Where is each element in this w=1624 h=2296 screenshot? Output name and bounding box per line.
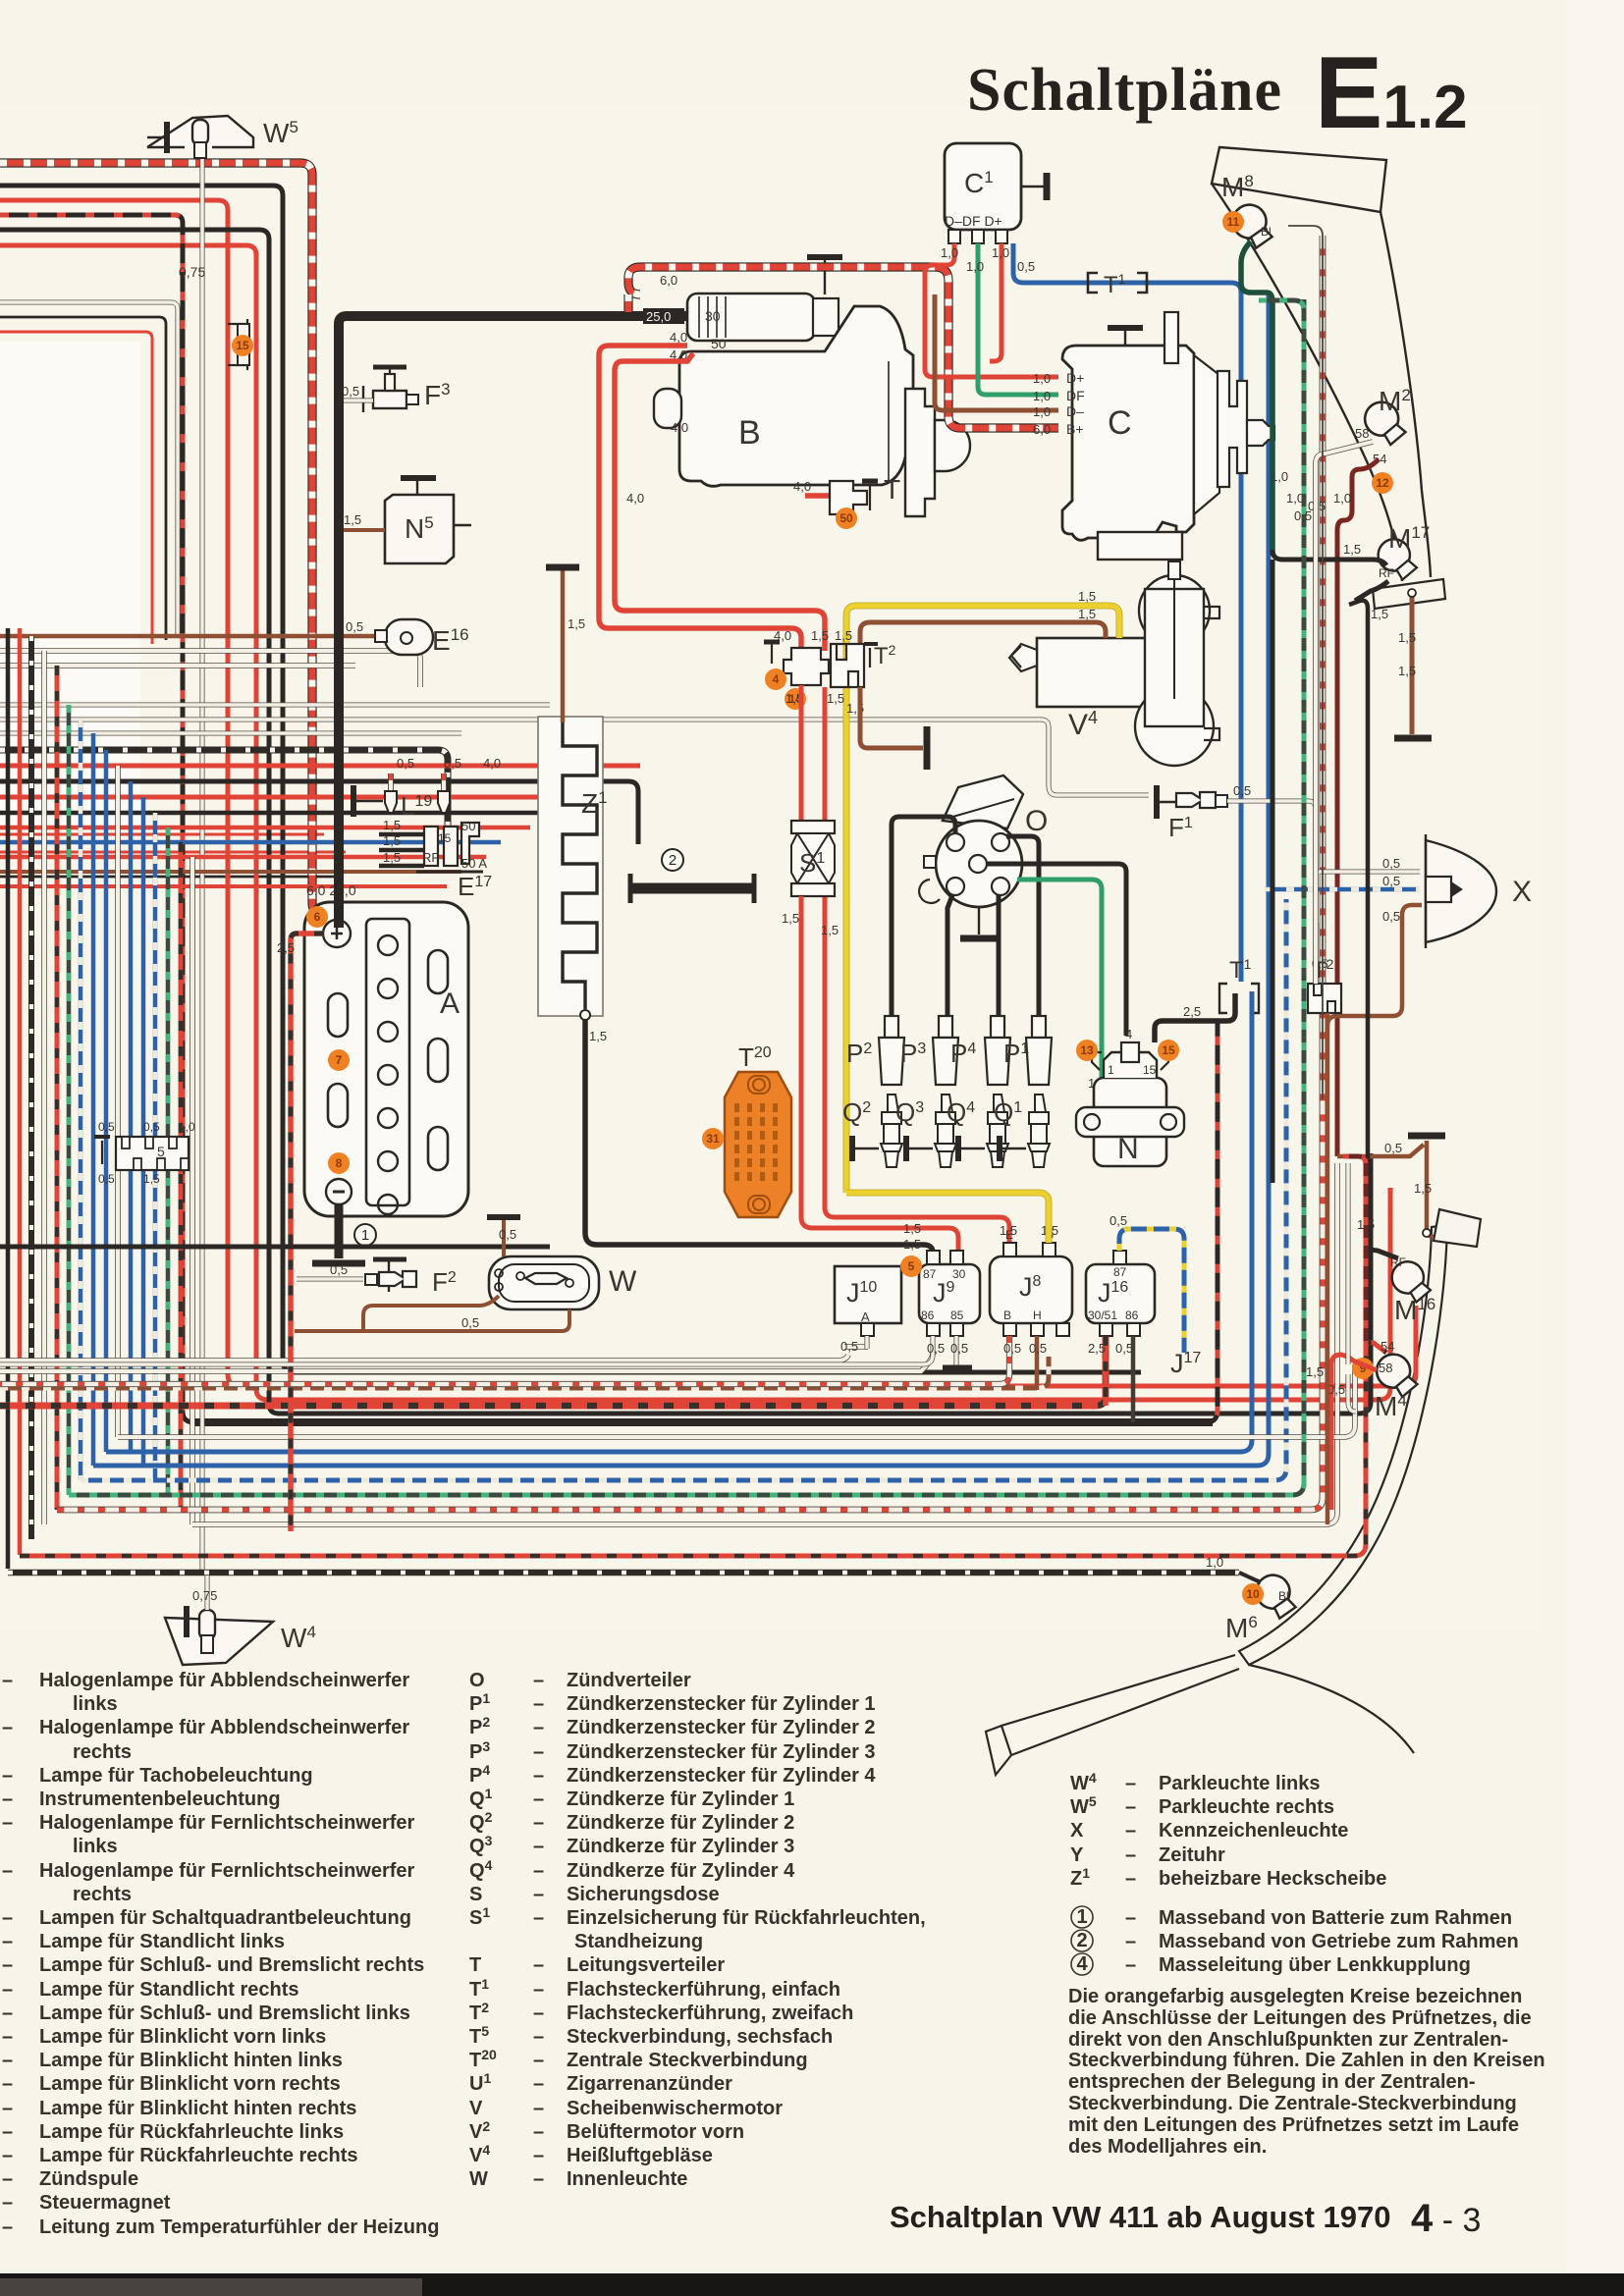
svg-text:0,75: 0,75 — [192, 1588, 217, 1603]
svg-text:4,0: 4,0 — [671, 420, 688, 435]
svg-text:–: – — [2, 2026, 13, 2048]
wire red S1 down A — [799, 685, 804, 821]
svg-text:1,5: 1,5 — [1414, 1181, 1432, 1196]
battery A body — [304, 902, 468, 1216]
svg-text:Halogenlampe für Abblendschein: Halogenlampe für Abblendscheinwerfer — [39, 1717, 409, 1738]
svg-text:H: H — [1033, 1308, 1042, 1322]
wire black/white hatched bottom to M6 — [8, 1570, 1239, 1576]
svg-text:–: – — [2, 2002, 13, 2024]
svg-text:D–DF D+: D–DF D+ — [945, 213, 1002, 229]
svg-text:Lampe für Schluß- und Bremslic: Lampe für Schluß- und Bremslicht rechts — [39, 1954, 424, 1976]
riser black to M16 top — [1349, 601, 1368, 1158]
svg-text:1,5: 1,5 — [1078, 607, 1096, 621]
svg-text:1: 1 — [361, 1227, 369, 1244]
wire red/black hatched bottom — [0, 1337, 1106, 1406]
wire M8 down — [1241, 241, 1272, 556]
relay J10 — [835, 1266, 901, 1323]
svg-text:4: 4 — [1076, 1953, 1088, 1975]
generator shaft mark — [1164, 312, 1178, 363]
orange circle 6 — [306, 906, 328, 928]
svg-text:–: – — [1125, 1796, 1136, 1818]
svg-text:Halogenlampe für Abblendschein: Halogenlampe für Abblendscheinwerfer — [39, 1670, 409, 1691]
svg-text:X: X — [1070, 1820, 1084, 1842]
wire black Z1 bottom to relays — [585, 1020, 933, 1258]
wire red/black hatched horizontal — [0, 750, 448, 850]
svg-text:D+: D+ — [1066, 370, 1084, 386]
wire grey 0.75 from W5 lamp — [199, 157, 204, 1575]
svg-text:1,0: 1,0 — [966, 259, 984, 274]
svg-text:1,5: 1,5 — [903, 1237, 921, 1252]
svg-text:Parkleuchte links: Parkleuchte links — [1159, 1773, 1321, 1794]
svg-text:–: – — [1125, 1773, 1136, 1794]
svg-text:–: – — [2, 1670, 13, 1691]
orange circle 14 — [785, 688, 806, 710]
svg-text:–: – — [533, 2050, 544, 2071]
svg-text:86: 86 — [1125, 1308, 1139, 1322]
relay J9 — [919, 1264, 980, 1323]
connector T5 — [116, 1137, 189, 1170]
ignition lead P2 — [892, 817, 955, 1016]
svg-text:–: – — [533, 2121, 544, 2143]
svg-text:1,5: 1,5 — [1078, 589, 1096, 604]
svg-text:Flachsteckerführung, einfach: Flachsteckerführung, einfach — [567, 1979, 840, 2001]
car body rear fender early — [1239, 1225, 1447, 1665]
svg-text:–: – — [533, 1717, 544, 1738]
svg-text:Steckverbindung. Die Zentrale-: Steckverbindung. Die Zentrale-Steckverbi… — [1068, 2093, 1517, 2114]
svg-text:1,5: 1,5 — [1306, 1364, 1324, 1379]
wire black B top — [0, 230, 1371, 1414]
wire blue C1 to T1 bracket — [1013, 243, 1241, 982]
svg-text:Schaltplan VW 411 ab August 19: Schaltplan VW 411 ab August 1970 — [890, 2200, 1391, 2234]
svg-text:4 - 3: 4 - 3 — [1411, 2197, 1481, 2240]
bottom scan band — [0, 2273, 1624, 2296]
relay J16 — [1086, 1264, 1155, 1323]
svg-text:Masseband von Getriebe zum Rah: Masseband von Getriebe zum Rahmen — [1159, 1931, 1519, 1952]
svg-text:Lampe für Schluß- und Bremslic: Lampe für Schluß- und Bremslicht links — [39, 2002, 410, 2024]
connector T mid — [784, 648, 829, 685]
left vertical wire bundle — [8, 628, 192, 1569]
svg-text:Zündkerze für Zylinder 1: Zündkerze für Zylinder 1 — [567, 1789, 794, 1810]
svg-text:86: 86 — [921, 1308, 935, 1322]
svg-text:8: 8 — [336, 1156, 343, 1170]
riser darkred M8 — [1288, 226, 1323, 1099]
svg-text:–: – — [533, 2168, 544, 2190]
svg-text:0,5: 0,5 — [461, 1315, 479, 1330]
wire red D+ C1 — [925, 243, 1058, 377]
spark plug Q3 — [935, 1095, 956, 1167]
svg-text:0,5: 0,5 — [143, 1120, 160, 1134]
svg-text:–: – — [533, 2073, 544, 2095]
wire 0.5 to F3 — [339, 398, 373, 402]
svg-text:W: W — [609, 1265, 637, 1298]
riser green dash to C1 area — [1259, 300, 1304, 1483]
svg-text:1,0: 1,0 — [1033, 389, 1051, 403]
wire grey M2 58 — [1315, 923, 1317, 984]
svg-text:Heißluftgebläse: Heißluftgebläse — [567, 2145, 713, 2166]
starter terminal T top — [807, 254, 842, 260]
svg-text:0,5: 0,5 — [1003, 1341, 1021, 1356]
wire darkred bottom to M4 — [20, 1343, 1386, 1556]
wire brown W bottom 1 — [295, 1309, 569, 1331]
svg-text:–: – — [2, 2145, 13, 2166]
svg-text:–: – — [2, 1717, 13, 1738]
wire red 4.0 into 50 — [599, 346, 801, 651]
blower V4 clips — [1204, 607, 1219, 740]
svg-text:Belüftermotor vorn: Belüftermotor vorn — [567, 2121, 744, 2143]
svg-text:0,5: 0,5 — [330, 1262, 348, 1277]
svg-text:T: T — [884, 474, 900, 505]
svg-text:Flachsteckerführung, zweifach: Flachsteckerführung, zweifach — [567, 2002, 853, 2024]
sender F2 — [388, 1258, 390, 1292]
riser black long — [1271, 560, 1275, 1183]
svg-text:Lampe für Standlicht rechts: Lampe für Standlicht rechts — [39, 1979, 299, 2001]
svg-text:Leitungsverteiler: Leitungsverteiler — [567, 1954, 725, 1976]
svg-text:1: 1 — [1108, 1063, 1114, 1077]
svg-text:5: 5 — [157, 1144, 165, 1159]
svg-text:1,5: 1,5 — [1000, 1223, 1017, 1238]
svg-text:–: – — [533, 1979, 544, 2001]
component E16 — [385, 619, 433, 655]
heated window Z1 outline — [538, 717, 603, 1016]
svg-text:Zündkerze für Zylinder 4: Zündkerze für Zylinder 4 — [567, 1860, 795, 1882]
ignition lead P3 — [947, 895, 952, 1016]
svg-text:Lampe für Rückfahrleuchte rech: Lampe für Rückfahrleuchte rechts — [39, 2145, 358, 2166]
svg-text:–: – — [533, 1884, 544, 1905]
svg-text:Masseleitung über Lenkkupplung: Masseleitung über Lenkkupplung — [1159, 1954, 1471, 1976]
svg-text:A: A — [861, 1309, 870, 1324]
svg-text:2,5: 2,5 — [1183, 1004, 1201, 1019]
blower V4 body — [1037, 638, 1147, 707]
component N5 — [385, 495, 454, 563]
svg-text:–: – — [1125, 1868, 1136, 1890]
wire red right of T20 A — [800, 1217, 802, 1228]
svg-text:4: 4 — [1125, 1027, 1132, 1041]
svg-text:1,0: 1,0 — [1286, 491, 1304, 506]
starter to T lead — [805, 493, 850, 499]
svg-text:0,5: 0,5 — [98, 1172, 115, 1186]
svg-text:0,5: 0,5 — [98, 1120, 115, 1134]
svg-text:1,5: 1,5 — [383, 818, 401, 832]
svg-text:–: – — [1125, 1954, 1136, 1976]
generator C body — [1062, 346, 1194, 540]
riser blue to T1 — [1250, 991, 1255, 1017]
connector T starter — [830, 481, 867, 514]
svg-text:1,0: 1,0 — [179, 1120, 195, 1134]
svg-text:50: 50 — [711, 336, 727, 351]
wire black mid 1 — [0, 781, 638, 844]
wire red M4 58 — [1331, 1355, 1377, 1510]
svg-text:Die orangefarbig ausgelegten K: Die orangefarbig ausgelegten Kreise beze… — [1068, 1986, 1522, 2007]
svg-text:B: B — [738, 414, 761, 452]
plug connector P1 — [1032, 1016, 1046, 1038]
svg-text:Y: Y — [1070, 1844, 1084, 1866]
svg-text:rechts: rechts — [73, 1741, 132, 1763]
svg-text:X: X — [1512, 876, 1532, 908]
wire grey bottom 3 — [118, 1364, 1355, 1437]
svg-text:Leitung zum Temperaturfühler d: Leitung zum Temperaturfühler der Heizung — [39, 2216, 439, 2238]
svg-text:–: – — [2, 1931, 13, 1952]
bottom scan band left — [0, 2278, 422, 2296]
svg-text:0,5: 0,5 — [342, 384, 359, 399]
svg-text:4: 4 — [773, 672, 780, 686]
wire red 4.0 pair stub — [0, 0, 1, 1]
svg-text:–: – — [533, 1670, 544, 1691]
svg-text:Zigarrenanzünder: Zigarrenanzünder — [567, 2073, 732, 2095]
svg-text:Einzelsicherung für Rückfahrle: Einzelsicherung für Rückfahrleuchten, — [567, 1907, 926, 1929]
wire red D- C1 — [990, 243, 1001, 361]
svg-text:–: – — [2, 2073, 13, 2095]
svg-text:–: – — [2, 2216, 13, 2238]
spark plug Q1 — [1028, 1095, 1050, 1167]
wire blue bottom 1 — [93, 294, 1269, 1466]
svg-text:–: – — [1125, 1844, 1136, 1866]
wire blue bottom 2 — [106, 1017, 1252, 1452]
svg-text:Zündkerzenstecker für Zylinder: Zündkerzenstecker für Zylinder 2 — [567, 1717, 876, 1738]
svg-text:0,5: 0,5 — [1382, 909, 1400, 924]
wire M17 riser — [1366, 1183, 1368, 1525]
wire red dashed bottom — [57, 236, 1323, 1510]
svg-text:D–: D– — [1066, 403, 1084, 419]
svg-text:Kennzeichenleuchte: Kennzeichenleuchte — [1159, 1820, 1348, 1842]
svg-text:N: N — [1117, 1133, 1139, 1165]
circled 1 label — [354, 1224, 376, 1246]
wire black 2.5 to coil 15 — [1155, 993, 1235, 1042]
wires J9 bottom — [0, 1336, 933, 1364]
svg-text:–: – — [2, 2098, 13, 2119]
wire grey bottom 1 — [0, 1347, 933, 1371]
starter B body — [679, 306, 913, 486]
svg-text:Steuermagnet: Steuermagnet — [39, 2192, 171, 2214]
wire red/white 6.0 starter loop — [628, 267, 1058, 428]
wire red A top — [0, 200, 1416, 1386]
wire black long left to relays — [0, 1245, 550, 1250]
wire yellow to V4 — [846, 606, 1119, 1193]
svg-text:–: – — [2, 1789, 13, 1810]
riser brown to T2 — [1326, 1013, 1330, 1524]
svg-text:1,5: 1,5 — [827, 691, 844, 706]
svg-text:0,5: 0,5 — [927, 1341, 945, 1356]
wire grey mid 1 — [0, 651, 420, 687]
distributor O cap — [943, 775, 1023, 828]
svg-text:beheizbare Heckscheibe: beheizbare Heckscheibe — [1159, 1868, 1386, 1890]
svg-text:B+: B+ — [1066, 421, 1084, 437]
svg-text:0,5: 0,5 — [397, 756, 414, 771]
wire 0.75 to W4 — [204, 1575, 209, 1610]
distributor O body — [936, 821, 1022, 907]
wire brown M16 ground — [1427, 1141, 1434, 1237]
orange circle 13 — [1076, 1040, 1098, 1061]
svg-text:–: – — [533, 2098, 544, 2119]
diagram paper area — [0, 106, 1540, 1629]
svg-text:entsprechen der Belegung in de: entsprechen der Belegung in der Zentrale… — [1068, 2071, 1476, 2093]
heated window Z1 element — [563, 722, 597, 1009]
wire black C top / thick bottom — [0, 215, 1218, 1422]
svg-text:15: 15 — [438, 831, 452, 845]
svg-text:A: A — [440, 988, 460, 1020]
label 25,0 on black — [643, 308, 684, 324]
coil N bracket — [1076, 1107, 1184, 1137]
svg-text:1: 1 — [1076, 1906, 1087, 1928]
wire grey J10 A — [864, 1336, 869, 1349]
svg-text:–: – — [533, 1836, 544, 1857]
svg-text:1,5: 1,5 — [1371, 607, 1388, 621]
svg-text:0,5: 0,5 — [1110, 1213, 1127, 1228]
svg-text:rechts: rechts — [73, 1884, 132, 1905]
svg-text:6,0: 6,0 — [1033, 422, 1051, 437]
svg-text:B: B — [1003, 1308, 1011, 1322]
spark plug Q2 — [881, 1095, 902, 1167]
wire brown right riser to X — [181, 1509, 1316, 1511]
wire brown D- to generator — [935, 294, 1058, 410]
wire black from left top — [0, 186, 1141, 1372]
svg-text:6: 6 — [314, 910, 321, 924]
svg-text:6,0 25,0: 6,0 25,0 — [306, 882, 356, 898]
svg-text:Steckverbindung führen. Die Za: Steckverbindung führen. Die Zahlen in de… — [1068, 2050, 1545, 2071]
orange circle 10 — [1242, 1583, 1264, 1605]
svg-text:1,5: 1,5 — [903, 1221, 921, 1236]
regulator C1 right terminal — [1021, 186, 1047, 188]
wire brown M17 ground — [1410, 593, 1415, 734]
wire black J16 86 — [1131, 1336, 1136, 1422]
orange circle 50 — [836, 507, 857, 529]
svg-text:–: – — [533, 1954, 544, 1976]
wire brown mid 2 — [0, 870, 461, 874]
wire brown W top — [502, 1219, 506, 1256]
svg-text:1,0: 1,0 — [1206, 1555, 1223, 1570]
wire black 25.0 battery to starter — [339, 316, 687, 928]
svg-text:1,5: 1,5 — [589, 1029, 607, 1043]
orange circle 31 — [702, 1128, 724, 1149]
svg-text:Instrumentenbeleuchtung: Instrumentenbeleuchtung — [39, 1789, 281, 1810]
sender F3 — [362, 386, 364, 412]
car body C pillar early — [1212, 184, 1431, 581]
svg-text:Lampe für Tachobeleuchtung: Lampe für Tachobeleuchtung — [39, 1765, 313, 1787]
legend middle column — [469, 1670, 926, 2190]
wire green DF C1 — [978, 243, 1058, 395]
wire red below S1 — [801, 896, 958, 1256]
connector L19 — [388, 774, 394, 791]
svg-text:15: 15 — [1143, 1063, 1157, 1077]
connector T1 right — [1219, 984, 1259, 1013]
lamp W4 parkleuchte links — [165, 1618, 273, 1665]
wire thin grey box — [0, 302, 178, 636]
svg-text:25,0: 25,0 — [646, 309, 671, 324]
svg-text:mit den Leitungen des Prüfnetz: mit den Leitungen des Prüfnetzes setzt i… — [1068, 2114, 1519, 2136]
wire grey bottom 2 — [192, 1163, 1337, 1524]
ignition lead to coil 4 — [987, 864, 1126, 1036]
spark plug Q4 — [987, 1095, 1008, 1167]
svg-text:Zündkerze für Zylinder 3: Zündkerze für Zylinder 3 — [567, 1836, 794, 1857]
svg-text:1,5: 1,5 — [1398, 664, 1416, 678]
svg-text:54: 54 — [1380, 1339, 1394, 1354]
wire green ignition to coil — [1017, 880, 1108, 1139]
svg-text:1,0: 1,0 — [941, 245, 958, 260]
svg-text:1,5: 1,5 — [835, 628, 852, 643]
svg-text:Bl: Bl — [1278, 1589, 1289, 1603]
svg-text:–: – — [2, 1954, 13, 1976]
wire black M17 alt — [1355, 581, 1388, 601]
orange circle 4 — [765, 668, 786, 690]
riser darkred dash M16/M4 column — [1343, 1156, 1366, 1349]
wire brown T2 to ground — [860, 687, 923, 748]
regulator terminals — [948, 230, 960, 243]
svg-text:87: 87 — [1113, 1265, 1127, 1279]
svg-text:0,5: 0,5 — [1382, 856, 1400, 871]
generator foot — [1098, 532, 1182, 560]
svg-text:1,5: 1,5 — [568, 616, 585, 631]
battery plus post — [323, 920, 351, 947]
fuse S1 — [791, 821, 835, 833]
svg-text:–: – — [2, 2121, 13, 2143]
wire brown to E16 — [0, 634, 381, 639]
svg-text:10: 10 — [1246, 1587, 1260, 1601]
svg-text:2: 2 — [669, 852, 677, 869]
svg-text:58: 58 — [1355, 426, 1369, 441]
svg-text:Innenleuchte: Innenleuchte — [567, 2168, 687, 2190]
riser black x1296 M17 — [1272, 556, 1316, 1193]
svg-text:0,75: 0,75 — [179, 264, 205, 280]
svg-text:–: – — [2, 2050, 13, 2071]
svg-text:Zündkerzenstecker für Zylinder: Zündkerzenstecker für Zylinder 1 — [567, 1693, 876, 1715]
svg-text:T: T — [469, 1954, 481, 1976]
circled 2 label — [662, 849, 683, 871]
plug connector P3 — [939, 1016, 952, 1038]
orange circle 12 — [1372, 472, 1393, 494]
orange circle 15b — [1158, 1040, 1179, 1061]
central connector T20 — [725, 1072, 791, 1217]
wire red 2.5 J16 — [1103, 1336, 1109, 1406]
lamp M6 — [1250, 1569, 1302, 1623]
svg-text:Standheizung: Standheizung — [574, 1931, 703, 1952]
generator C cone — [1194, 355, 1219, 514]
svg-text:5: 5 — [908, 1259, 915, 1273]
svg-text:4,0: 4,0 — [483, 756, 501, 771]
svg-text:Masseband von Batterie zum Rah: Masseband von Batterie zum Rahmen — [1159, 1907, 1512, 1929]
lamp X kennzeichenleuchte — [1426, 840, 1496, 942]
svg-text:58: 58 — [1379, 1361, 1392, 1375]
wire green dashed bottom — [69, 299, 1304, 1495]
wire 1.5 to N5 — [339, 528, 385, 532]
svg-text:2: 2 — [1076, 1930, 1087, 1951]
connector T2 mid — [831, 644, 864, 687]
battery cells — [378, 935, 398, 955]
svg-text:1,5: 1,5 — [821, 923, 839, 937]
svg-text:1,5: 1,5 — [383, 833, 401, 848]
svg-text:–: – — [2, 1979, 13, 2001]
svg-text:Zentrale Steckverbindung: Zentrale Steckverbindung — [567, 2050, 808, 2071]
generator pulley — [1218, 371, 1247, 487]
svg-text:–: – — [533, 1860, 544, 1882]
svg-text:1,0: 1,0 — [1033, 404, 1051, 419]
svg-text:50: 50 — [839, 511, 853, 525]
svg-text:0,5: 0,5 — [1382, 874, 1400, 888]
wires 1.5 into E17 — [379, 832, 424, 837]
sender F1 — [1154, 785, 1160, 819]
svg-text:Lampen für Schaltquadrantbeleu: Lampen für Schaltquadrantbeleuchtung — [39, 1907, 411, 1929]
Z1 bottom connector — [580, 1010, 590, 1020]
ground strap 2 bar — [630, 883, 754, 894]
wire blue/yellow J16 to J17 — [1119, 1229, 1184, 1353]
svg-text:Zündkerzenstecker für Zylinder: Zündkerzenstecker für Zylinder 4 — [567, 1765, 876, 1787]
svg-text:2,5: 2,5 — [277, 940, 295, 955]
orange circle 8 — [328, 1152, 350, 1174]
relay J8 — [990, 1256, 1072, 1323]
plug connector P2 — [885, 1016, 898, 1038]
starter B nose — [905, 389, 935, 516]
svg-text:–: – — [2, 1812, 13, 1834]
riser grey T2 up — [1316, 442, 1373, 984]
wire black M17 — [1272, 550, 1386, 565]
